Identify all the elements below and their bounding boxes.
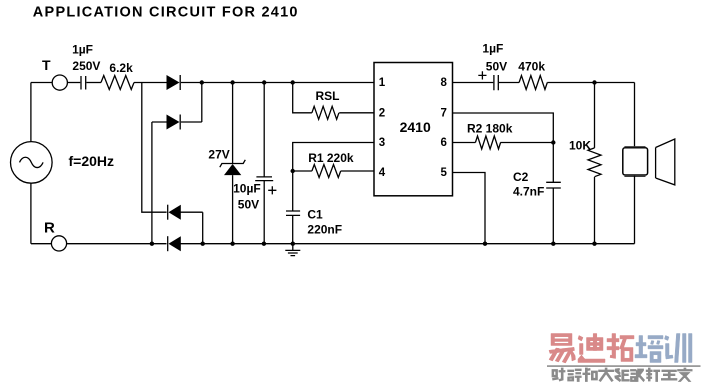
- svg-text:2410: 2410: [400, 119, 431, 135]
- svg-text:R: R: [44, 220, 55, 237]
- svg-text:220nF: 220nF: [307, 223, 342, 237]
- svg-text:1µF: 1µF: [72, 43, 93, 57]
- svg-text:f=20Hz: f=20Hz: [69, 153, 115, 169]
- svg-text:T: T: [42, 57, 51, 73]
- svg-text:8: 8: [441, 77, 448, 89]
- svg-text:C2: C2: [513, 170, 529, 184]
- svg-text:4: 4: [379, 167, 386, 179]
- svg-text:C1: C1: [307, 207, 323, 221]
- svg-text:470k: 470k: [518, 60, 545, 74]
- svg-text:4.7nF: 4.7nF: [513, 185, 544, 199]
- svg-text:1µF: 1µF: [482, 42, 503, 56]
- svg-text:250V: 250V: [72, 59, 100, 73]
- svg-text:RSL: RSL: [316, 89, 340, 103]
- svg-text:10µF: 10µF: [233, 182, 261, 196]
- svg-text:APPLICATION CIRCUIT FOR 2410: APPLICATION CIRCUIT FOR 2410: [33, 5, 299, 21]
- svg-text:1: 1: [379, 77, 386, 89]
- svg-text:6: 6: [441, 137, 447, 149]
- svg-text:10K: 10K: [569, 139, 591, 153]
- svg-text:27V: 27V: [208, 148, 229, 162]
- svg-text:6.2k: 6.2k: [109, 61, 133, 75]
- svg-text:R2 180k: R2 180k: [467, 122, 513, 136]
- svg-text:2: 2: [379, 108, 385, 120]
- svg-text:5: 5: [441, 167, 448, 179]
- svg-text:50V: 50V: [238, 198, 259, 212]
- svg-text:R1 220k: R1 220k: [308, 151, 354, 165]
- svg-text:7: 7: [441, 108, 447, 120]
- svg-text:3: 3: [379, 137, 385, 149]
- svg-text:50V: 50V: [486, 60, 507, 74]
